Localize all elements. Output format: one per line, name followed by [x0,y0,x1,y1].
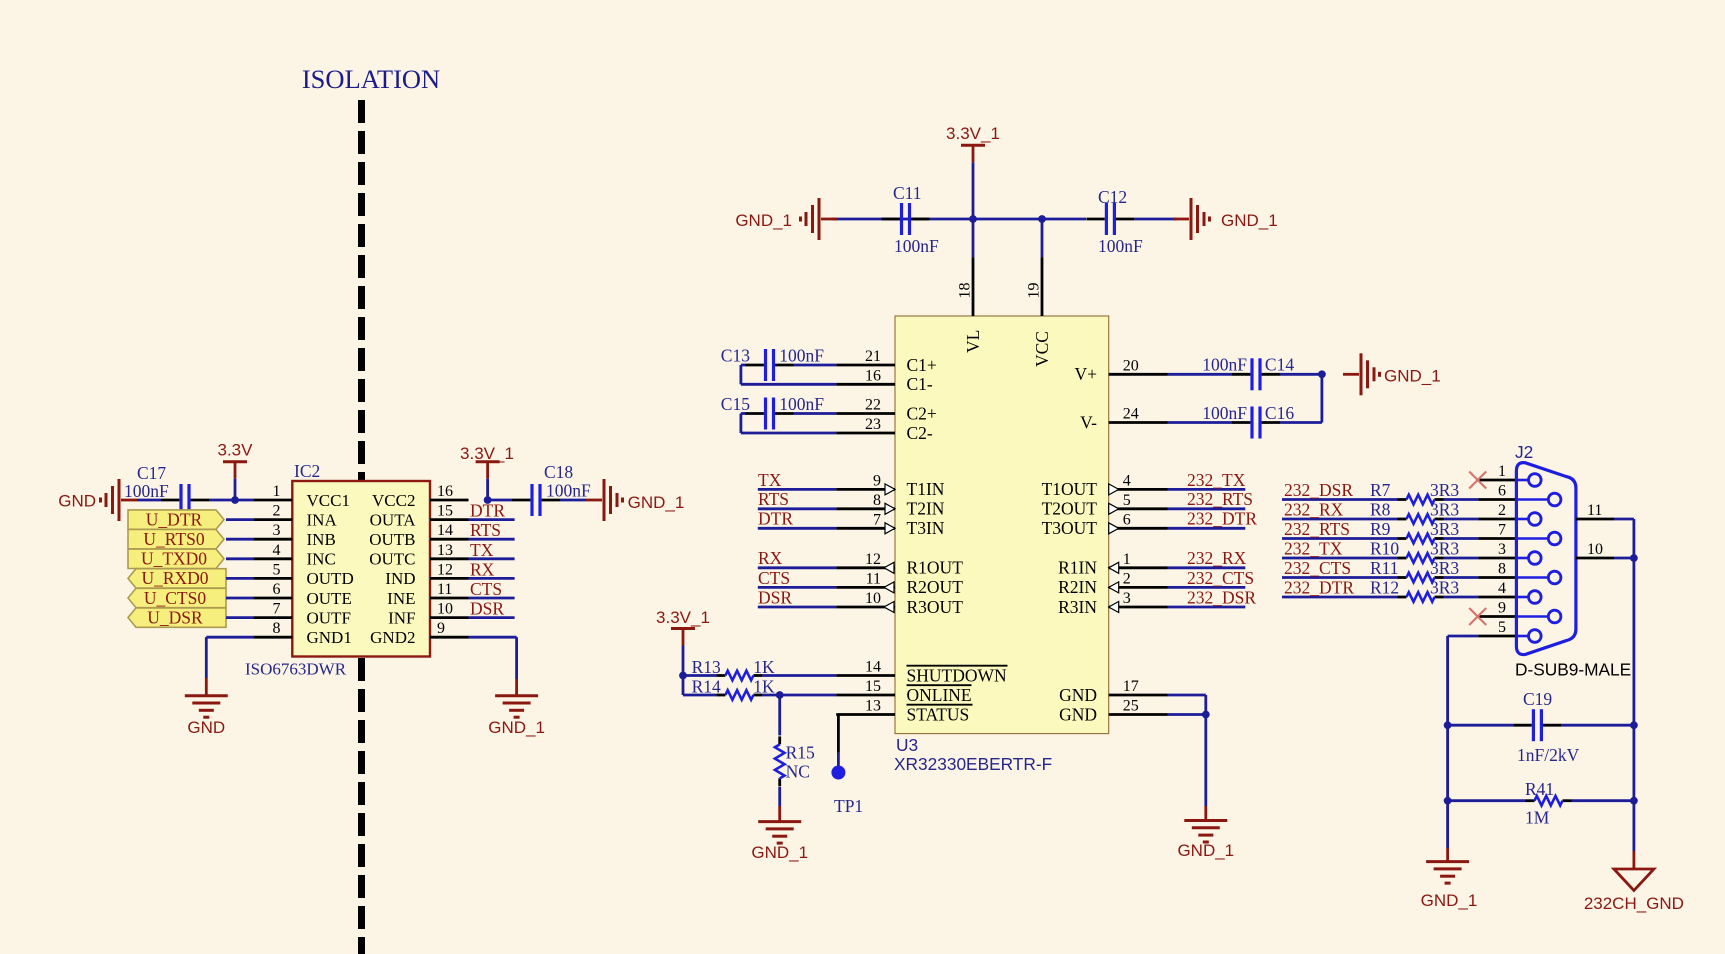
svg-text:TX: TX [758,470,782,490]
svg-text:232_RTS: 232_RTS [1284,519,1350,539]
svg-text:23: 23 [865,416,881,433]
svg-text:INC: INC [307,550,336,569]
svg-text:R12: R12 [1370,577,1399,597]
svg-text:RX: RX [758,548,783,568]
svg-text:2: 2 [1498,502,1506,519]
svg-text:DSR: DSR [470,599,504,619]
svg-text:R3OUT: R3OUT [907,597,964,617]
svg-text:16: 16 [437,483,453,500]
svg-text:V+: V+ [1074,364,1097,384]
svg-text:GND1: GND1 [307,628,352,647]
svg-text:4: 4 [273,542,281,559]
svg-text:R10: R10 [1370,538,1399,558]
svg-text:VCC: VCC [1032,331,1052,367]
svg-text:INF: INF [388,608,415,627]
svg-text:GND_1: GND_1 [735,211,792,230]
svg-text:ISOLATION: ISOLATION [302,64,440,94]
svg-text:GND: GND [1059,704,1097,724]
svg-text:R2OUT: R2OUT [907,577,964,597]
svg-text:GND2: GND2 [370,628,415,647]
svg-text:5: 5 [1498,619,1506,636]
svg-text:1: 1 [1498,463,1506,480]
svg-text:12: 12 [865,551,881,568]
svg-text:C15: C15 [721,394,750,414]
svg-text:2: 2 [1123,570,1131,587]
svg-text:3: 3 [273,522,281,539]
svg-text:VL: VL [963,330,983,353]
svg-text:GND: GND [187,718,225,737]
svg-text:J2: J2 [1515,442,1533,462]
svg-text:CTS: CTS [470,579,502,599]
svg-text:4: 4 [1498,580,1506,597]
svg-text:R7: R7 [1370,480,1391,500]
svg-text:U_RTS0: U_RTS0 [143,529,204,549]
svg-text:10: 10 [865,590,881,607]
svg-text:6: 6 [273,581,281,598]
svg-text:100nF: 100nF [779,394,824,414]
svg-text:9: 9 [873,472,881,489]
svg-text:232_RX: 232_RX [1284,499,1344,519]
svg-text:7: 7 [273,601,281,618]
svg-text:18: 18 [957,283,974,299]
svg-text:11: 11 [866,570,881,587]
svg-text:RTS: RTS [470,520,501,540]
svg-text:T2OUT: T2OUT [1042,499,1098,519]
svg-text:3.3V: 3.3V [218,441,254,460]
svg-text:C13: C13 [721,345,750,365]
svg-text:IC2: IC2 [294,461,320,481]
svg-text:100nF: 100nF [546,481,591,501]
svg-text:232_DTR: 232_DTR [1187,509,1257,529]
svg-text:20: 20 [1123,357,1139,374]
svg-text:3R3: 3R3 [1430,577,1459,597]
svg-text:100nF: 100nF [1202,355,1247,375]
svg-text:C2-: C2- [907,423,933,443]
svg-text:16: 16 [865,367,881,384]
svg-text:OUTF: OUTF [307,608,351,627]
svg-text:100nF: 100nF [124,481,169,501]
svg-text:24: 24 [1123,406,1139,423]
svg-text:R2IN: R2IN [1058,577,1097,597]
svg-text:C11: C11 [893,183,922,203]
svg-text:232_CTS: 232_CTS [1284,558,1351,578]
svg-text:ONLINE: ONLINE [907,685,972,705]
svg-text:U_CTS0: U_CTS0 [144,588,206,608]
svg-text:8: 8 [273,620,281,637]
svg-text:T1OUT: T1OUT [1042,479,1098,499]
svg-text:22: 22 [865,397,881,414]
svg-text:IND: IND [385,569,415,588]
svg-text:232_RX: 232_RX [1187,548,1247,568]
svg-text:100nF: 100nF [1098,236,1143,256]
svg-text:GND_1: GND_1 [1421,891,1478,910]
svg-text:13: 13 [865,698,881,715]
svg-text:3.3V_1: 3.3V_1 [946,124,1000,143]
svg-text:T3OUT: T3OUT [1042,518,1098,538]
svg-text:15: 15 [437,503,453,520]
svg-text:U3: U3 [896,735,918,755]
svg-text:R14: R14 [692,677,721,697]
svg-text:DSR: DSR [758,587,792,607]
svg-text:17: 17 [1123,678,1139,695]
svg-text:19: 19 [1026,283,1043,299]
svg-text:8: 8 [873,492,881,509]
svg-text:C12: C12 [1098,187,1127,207]
svg-text:10: 10 [1587,541,1603,558]
svg-text:NC: NC [786,762,810,782]
svg-text:12: 12 [437,561,453,578]
svg-text:C17: C17 [137,463,166,483]
svg-text:5: 5 [273,561,281,578]
svg-text:R3IN: R3IN [1058,597,1097,617]
svg-text:C14: C14 [1265,355,1294,375]
svg-text:100nF: 100nF [894,236,939,256]
svg-text:C19: C19 [1523,689,1552,709]
svg-text:4: 4 [1123,472,1131,489]
svg-text:OUTD: OUTD [307,569,354,588]
svg-text:3R3: 3R3 [1430,558,1459,578]
svg-text:VCC1: VCC1 [307,491,350,510]
svg-text:INE: INE [387,589,415,608]
svg-text:INB: INB [307,530,336,549]
svg-text:R11: R11 [1370,558,1399,578]
svg-text:GND_1: GND_1 [488,718,545,737]
svg-text:232_TX: 232_TX [1187,470,1246,490]
svg-text:C1+: C1+ [907,355,937,375]
svg-text:232_CTS: 232_CTS [1187,568,1254,588]
svg-text:R8: R8 [1370,499,1391,519]
svg-text:U_DSR: U_DSR [147,607,203,627]
svg-text:13: 13 [437,542,453,559]
svg-text:9: 9 [1498,600,1506,617]
svg-text:100nF: 100nF [1202,403,1247,423]
svg-text:GND: GND [1059,685,1097,705]
svg-text:T2IN: T2IN [907,499,945,519]
svg-text:3: 3 [1498,541,1506,558]
svg-text:R41: R41 [1525,779,1554,799]
svg-text:R13: R13 [692,657,721,677]
svg-text:RTS: RTS [758,489,789,509]
svg-text:OUTB: OUTB [369,530,415,549]
svg-text:3.3V_1: 3.3V_1 [460,444,514,463]
svg-text:6: 6 [1498,483,1506,500]
svg-text:GND_1: GND_1 [628,493,685,512]
svg-text:11: 11 [437,581,452,598]
svg-text:DTR: DTR [758,509,793,529]
svg-text:1K: 1K [753,677,775,697]
svg-text:V-: V- [1080,412,1097,432]
svg-text:GND: GND [58,492,96,511]
svg-text:232_RTS: 232_RTS [1187,489,1253,509]
svg-text:STATUS: STATUS [907,704,970,724]
svg-text:3: 3 [1123,590,1131,607]
svg-text:OUTC: OUTC [369,550,415,569]
svg-text:3R3: 3R3 [1430,499,1459,519]
svg-text:R1OUT: R1OUT [907,558,964,578]
svg-text:XR32330EBERTR-F: XR32330EBERTR-F [894,754,1052,774]
svg-text:1: 1 [1123,551,1131,568]
svg-text:3R3: 3R3 [1430,519,1459,539]
svg-text:11: 11 [1587,502,1602,519]
svg-text:232_DSR: 232_DSR [1284,480,1353,500]
svg-text:14: 14 [865,659,881,676]
svg-text:5: 5 [1123,492,1131,509]
svg-text:25: 25 [1123,698,1139,715]
svg-text:TP1: TP1 [834,796,863,816]
svg-text:1M: 1M [1525,808,1550,828]
svg-text:T3IN: T3IN [907,518,945,538]
svg-text:C1-: C1- [907,374,933,394]
svg-text:6: 6 [1123,511,1131,528]
svg-text:GND_1: GND_1 [1177,841,1234,860]
svg-text:1K: 1K [753,657,775,677]
svg-text:232_DSR: 232_DSR [1187,587,1256,607]
svg-text:7: 7 [1498,522,1506,539]
svg-text:9: 9 [437,620,445,637]
svg-text:3R3: 3R3 [1430,538,1459,558]
svg-text:R1IN: R1IN [1058,558,1097,578]
svg-text:2: 2 [273,503,281,520]
svg-text:3.3V_1: 3.3V_1 [656,608,710,627]
svg-text:TX: TX [470,540,494,560]
svg-text:232CH_GND: 232CH_GND [1584,894,1684,913]
svg-text:ISO6763DWR: ISO6763DWR [245,660,347,679]
svg-text:C16: C16 [1265,403,1294,423]
svg-text:U_RXD0: U_RXD0 [141,568,208,588]
svg-text:GND_1: GND_1 [1384,366,1441,385]
svg-text:100nF: 100nF [779,345,824,365]
svg-text:OUTE: OUTE [307,589,352,608]
svg-text:VCC2: VCC2 [372,491,415,510]
svg-text:15: 15 [865,678,881,695]
svg-text:SHUTDOWN: SHUTDOWN [907,665,1007,685]
svg-text:CTS: CTS [758,568,790,588]
svg-text:U_TXD0: U_TXD0 [141,549,207,569]
svg-text:INA: INA [307,510,338,529]
svg-text:C18: C18 [544,462,573,482]
svg-text:7: 7 [873,511,881,528]
svg-text:R9: R9 [1370,519,1391,539]
svg-text:GND_1: GND_1 [751,843,808,862]
svg-text:OUTA: OUTA [370,510,417,529]
svg-text:U_DTR: U_DTR [146,509,203,529]
svg-text:3R3: 3R3 [1430,480,1459,500]
svg-text:10: 10 [437,601,453,618]
svg-text:T1IN: T1IN [907,479,945,499]
svg-text:1nF/2kV: 1nF/2kV [1517,745,1580,765]
svg-text:C2+: C2+ [907,403,937,423]
svg-text:R15: R15 [786,743,815,763]
svg-text:14: 14 [437,522,453,539]
svg-text:21: 21 [865,348,881,365]
svg-text:1: 1 [273,483,281,500]
svg-text:D-SUB9-MALE: D-SUB9-MALE [1515,660,1631,680]
svg-text:GND_1: GND_1 [1221,211,1278,230]
svg-text:8: 8 [1498,561,1506,578]
svg-text:RX: RX [470,559,495,579]
svg-text:232_DTR: 232_DTR [1284,577,1354,597]
svg-text:232_TX: 232_TX [1284,538,1343,558]
